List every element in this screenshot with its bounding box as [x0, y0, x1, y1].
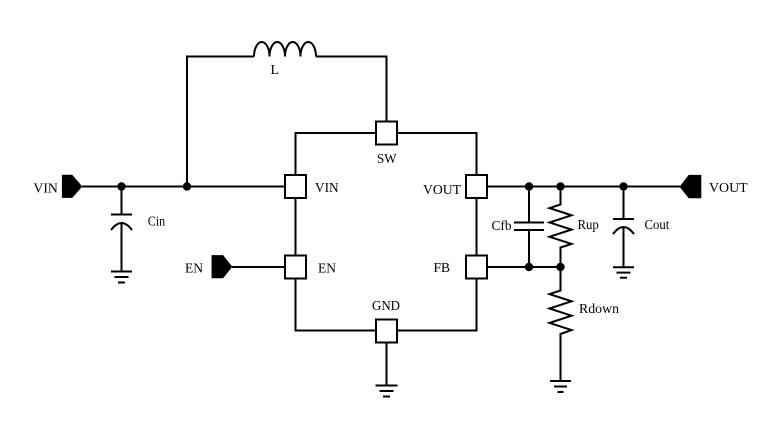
node junction Cin tap	[117, 182, 125, 190]
wire VIN input rail	[82, 186, 285, 188]
ground (Cin)	[111, 271, 132, 273]
capacitor Cout	[613, 218, 634, 220]
node junction Cout tap	[619, 182, 627, 190]
wire inductor to SW pin	[316, 57, 387, 122]
wire up to inductor	[187, 57, 254, 187]
svg-text:SW: SW	[377, 152, 397, 167]
wire VOUT output rail	[487, 186, 680, 188]
wire Cfb upper lead	[528, 187, 530, 222]
svg-text:FB: FB	[434, 261, 451, 276]
terminal EN	[212, 255, 233, 278]
wire Cout lower lead	[623, 227, 625, 267]
svg-text:GND: GND	[372, 299, 400, 314]
terminal VOUT	[680, 175, 702, 198]
IC U1 body	[296, 133, 477, 331]
pin VOUT	[466, 175, 487, 198]
svg-text:EN: EN	[185, 262, 203, 277]
wire Cin upper lead	[121, 187, 123, 215]
svg-text:VIN: VIN	[315, 181, 339, 196]
node junction Rup tap	[556, 182, 564, 190]
capacitor Cfb	[514, 222, 544, 224]
pin FB	[466, 256, 487, 279]
svg-text:VOUT: VOUT	[709, 181, 748, 196]
node junction Rup-Rdown-FB	[556, 263, 564, 271]
pin EN	[285, 256, 306, 279]
ground (GND pin)	[376, 385, 398, 387]
svg-text:VOUT: VOUT	[423, 183, 461, 198]
node junction Cfb tap	[525, 182, 533, 190]
wire Cout upper lead	[623, 187, 625, 219]
svg-text:VIN: VIN	[33, 181, 58, 196]
capacitor Cin	[111, 214, 132, 216]
ground (Rdown)	[550, 380, 571, 382]
pin GND	[376, 320, 397, 343]
svg-text:L: L	[271, 63, 280, 78]
terminal VIN	[62, 175, 82, 198]
wire EN input	[232, 266, 285, 268]
node junction Cfb-FB	[525, 263, 533, 271]
pin SW	[376, 122, 397, 145]
svg-text:Cout: Cout	[645, 218, 670, 233]
inductor L	[254, 42, 316, 57]
svg-text:Cfb: Cfb	[492, 219, 512, 234]
svg-text:EN: EN	[318, 262, 336, 277]
svg-text:Cin: Cin	[148, 214, 166, 229]
node junction inductor tap	[183, 182, 191, 190]
wire GND pin to ground	[386, 343, 388, 386]
wire Cfb lower lead	[528, 231, 530, 267]
wire FB rail	[487, 266, 561, 268]
wire Cin lower lead	[121, 223, 123, 271]
svg-text:Rdown: Rdown	[579, 302, 619, 317]
pin VIN	[285, 175, 306, 198]
resistor Rdown	[550, 267, 572, 381]
svg-text:Rup: Rup	[578, 218, 599, 233]
ground (Cout)	[613, 266, 634, 268]
resistor Rup	[550, 187, 572, 268]
